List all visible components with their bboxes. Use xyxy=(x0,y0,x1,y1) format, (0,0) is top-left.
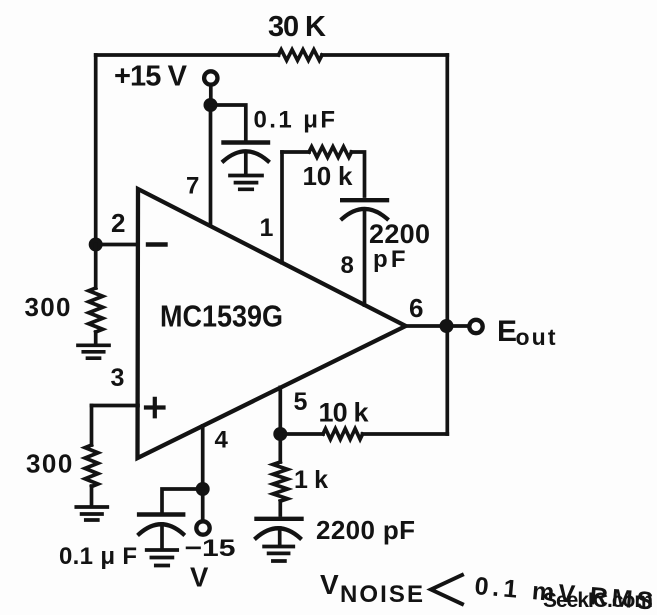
ground under C4 xyxy=(264,547,293,562)
wire R2 to ground xyxy=(94,332,98,344)
less-than symbol of noise spec xyxy=(431,575,462,604)
capacitor C3 curved plate xyxy=(139,524,183,534)
svg-text:6: 6 xyxy=(409,293,423,323)
svg-text:2200 pF: 2200 pF xyxy=(316,515,415,545)
wire C1 to ground xyxy=(244,152,248,174)
wire pin1 to R4 xyxy=(282,150,309,154)
svg-text:2200: 2200 xyxy=(369,219,430,249)
capacitor C1 curved plate xyxy=(224,151,269,161)
svg-text:−15: −15 xyxy=(185,535,236,562)
svg-text:1 k: 1 k xyxy=(294,466,328,494)
wire C4 to ground xyxy=(278,528,282,545)
svg-text:3: 3 xyxy=(111,364,125,392)
svg-text:30 K: 30 K xyxy=(268,11,326,43)
wire +15V node to C1 xyxy=(211,105,246,139)
resistor R1 30K zigzag xyxy=(279,50,322,61)
wire R4 to C2 xyxy=(352,152,365,196)
wire C3 to ground xyxy=(160,524,164,549)
svg-text:7: 7 xyxy=(186,173,199,200)
svg-text:NOISE: NOISE xyxy=(340,581,423,608)
node pin2 junction dot xyxy=(89,238,103,252)
wire pin6 output horizontal xyxy=(406,324,440,328)
wire R6 to right rail xyxy=(363,432,448,436)
op-amp U1 triangle xyxy=(138,189,406,458)
svg-text:V: V xyxy=(190,562,209,593)
svg-text:4: 4 xyxy=(215,427,229,454)
svg-text:5: 5 xyxy=(294,388,308,416)
ground under R3 xyxy=(76,507,107,520)
wire R5 to C4 xyxy=(278,501,282,515)
resistor R5 1k zigzag xyxy=(273,462,288,501)
wire pin2 node down to R2 xyxy=(94,245,98,289)
capacitor C4 2200pF flat plate xyxy=(257,517,302,521)
wire pin4 node to -15V terminal xyxy=(201,496,205,519)
svg-text:V: V xyxy=(320,569,339,600)
terminal Eout circle xyxy=(469,320,482,333)
svg-text:10 k: 10 k xyxy=(303,161,354,191)
wire output node to terminal xyxy=(454,324,469,328)
capacitor C4 curved plate xyxy=(256,528,300,538)
capacitor C2 curved plate xyxy=(342,209,387,219)
svg-text:E: E xyxy=(497,315,517,348)
capacitor C2 2200pF flat plate xyxy=(342,198,387,202)
svg-text:10 k: 10 k xyxy=(319,398,370,428)
wire left rail vertical xyxy=(94,55,98,245)
svg-text:1: 1 xyxy=(260,214,274,242)
terminal +15V circle xyxy=(204,71,217,84)
node output junction dot xyxy=(440,319,454,333)
wire right rail vertical xyxy=(445,55,449,434)
svg-text:+15 V: +15 V xyxy=(114,61,188,93)
wire pin5 node down to R5 xyxy=(278,434,282,462)
svg-text:0.1 μ F: 0.1 μ F xyxy=(59,543,137,570)
svg-text:out: out xyxy=(516,324,556,350)
wire +15V terminal to node xyxy=(209,87,213,101)
svg-text:300: 300 xyxy=(25,292,71,322)
wire R3 to ground xyxy=(90,486,94,505)
plus sign at non-inverting input xyxy=(146,399,164,417)
resistor R6 10k zigzag xyxy=(323,429,363,440)
wire pin2 horizontal xyxy=(96,243,138,247)
wire pin5 node to R6 xyxy=(280,432,323,436)
svg-text:300: 300 xyxy=(26,449,72,479)
resistor R2 300 zigzag xyxy=(89,288,103,332)
svg-text:0.1 μF: 0.1 μF xyxy=(254,106,336,133)
wire top horizontal left segment xyxy=(96,53,279,57)
wire pin7 vertical xyxy=(209,105,213,226)
terminal -15V circle xyxy=(196,521,209,534)
ground under C1 xyxy=(230,176,262,190)
wire top horizontal right segment xyxy=(322,53,447,57)
wire pin3 horizontal xyxy=(92,404,139,408)
svg-text:MC1539G: MC1539G xyxy=(160,299,283,334)
svg-text:8: 8 xyxy=(341,252,354,279)
ground under C3 xyxy=(147,550,178,566)
node pin4 junction dot xyxy=(196,482,210,496)
resistor R4 10k zigzag xyxy=(309,147,351,158)
node +15V junction dot xyxy=(204,98,218,112)
wire pin5 vertical xyxy=(278,387,282,434)
wire pin1 vertical xyxy=(280,152,284,263)
wire pin3 down to R3 xyxy=(90,406,94,446)
wire pin4 vertical xyxy=(201,426,205,489)
node pin5 junction dot xyxy=(273,427,287,441)
svg-text:2: 2 xyxy=(111,208,125,238)
minus sign at inverting input xyxy=(148,242,166,246)
ground under R2 xyxy=(78,345,109,358)
capacitor C3 0.1uF flat plate xyxy=(139,512,183,516)
wire C2 to pin8 xyxy=(363,210,367,306)
capacitor C1 0.1uF flat plate xyxy=(224,140,269,144)
resistor R3 300 zigzag xyxy=(85,445,98,487)
wire pin4 node left to C3 xyxy=(162,489,203,511)
